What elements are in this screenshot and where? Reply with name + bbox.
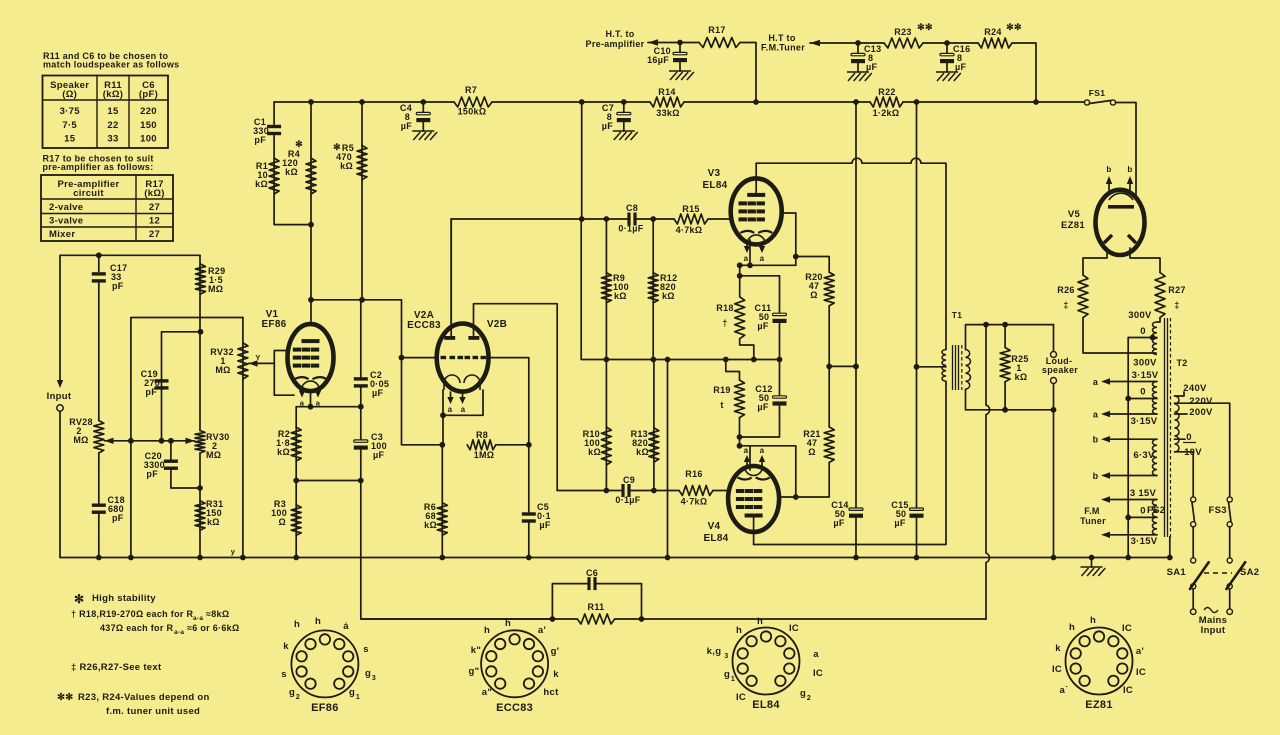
- node: CT column at HT rail: [914, 99, 920, 105]
- resistor R3: [291, 505, 301, 535]
- svg-text:3·15V: 3·15V: [1131, 536, 1158, 547]
- svg-text:pF: pF: [146, 469, 158, 479]
- svg-text:R14: R14: [658, 87, 675, 97]
- svg-text:EL84: EL84: [703, 533, 728, 544]
- resistor R4: [306, 158, 316, 194]
- node: C7 tap: [621, 99, 627, 105]
- svg-text:✻✻: ✻✻: [917, 22, 933, 32]
- wire: chassis ground stub: [1091, 558, 1093, 568]
- svg-text:a-a: a-a: [193, 615, 203, 622]
- wire: V3 anode to T1 primary top: [756, 162, 852, 164]
- svg-text:EF86: EF86: [261, 319, 286, 330]
- svg-text:b: b: [1106, 165, 1111, 174]
- wire: C7 ground stub: [623, 122, 625, 131]
- resistor R24: [978, 38, 1012, 48]
- svg-text:pF: pF: [112, 513, 124, 523]
- label: R29 1.5 M-ohm: [208, 266, 225, 294]
- svg-text:Tuner: Tuner: [1080, 516, 1106, 526]
- svg-text:ECC83: ECC83: [496, 702, 533, 714]
- svg-text:IC: IC: [813, 668, 823, 679]
- resistor R5: [357, 145, 367, 179]
- svg-text:F.M.Tuner: F.M.Tuner: [761, 43, 805, 53]
- svg-text:Pre-amplifier: Pre-amplifier: [586, 39, 645, 49]
- wire: V1 grid bracket: [274, 351, 294, 396]
- label: R7 150k: [458, 85, 487, 117]
- transformer T2 HT secondary: [1152, 322, 1157, 355]
- fuse FS3 element: [1229, 502, 1232, 522]
- wire: T1 secondary top: [966, 325, 1054, 350]
- svg-text:g: g: [349, 687, 355, 698]
- label: R13 820 k-ohm: [631, 429, 649, 457]
- socket: EF86 base labels: [281, 616, 376, 714]
- label: C11 50 uF: [755, 303, 772, 331]
- resistor R19: [735, 380, 745, 418]
- svg-text:EZ81: EZ81: [1061, 220, 1085, 231]
- wire: SA1-SA2 gang link: [1204, 572, 1232, 574]
- switch SA2 blade: [1227, 562, 1246, 589]
- label: R24 **: [984, 22, 1022, 37]
- resistor R7: [454, 97, 492, 107]
- wire: fm heater top tap: [1104, 499, 1157, 501]
- svg-text:h: h: [294, 619, 300, 630]
- svg-text:kΩ: kΩ: [636, 447, 649, 457]
- wire: V4 cathode lead: [749, 446, 751, 470]
- label: R20 47 ohm: [805, 272, 822, 300]
- svg-text:µF: µF: [602, 121, 613, 131]
- wire: C12 column: [779, 360, 781, 395]
- wire: R8 to V2B grid riser: [496, 444, 529, 446]
- resistor R16: [679, 486, 713, 496]
- socket: EL84 base: [733, 628, 800, 695]
- wire: C8 line: [451, 218, 627, 220]
- fuse FS3 top terminal: [1227, 497, 1232, 502]
- wire: V4 anode lead: [753, 516, 755, 545]
- wire: heater b bottom tap: [1104, 475, 1157, 477]
- fuse FS2 element: [1192, 502, 1195, 522]
- svg-text:R19: R19: [713, 385, 730, 395]
- wire: R24 to HT rail corner: [1012, 43, 1036, 102]
- svg-text:kΩ: kΩ: [588, 447, 601, 457]
- svg-text:6·3V: 6·3V: [1133, 450, 1155, 461]
- capacitor C7: [617, 112, 631, 122]
- svg-text:(kΩ): (kΩ): [144, 188, 164, 199]
- node: CT junction: [914, 364, 920, 370]
- label: V3 heater a a: [744, 254, 765, 263]
- wire: V2 cathode to R6: [442, 415, 444, 445]
- svg-text:T1: T1: [952, 310, 963, 320]
- node: ground rail junctions: [96, 555, 1173, 561]
- arrow: V2 heater a left: [447, 397, 453, 404]
- label: R5 470 k-ohm (high stability): [333, 142, 354, 171]
- svg-text:a˙: a˙: [1059, 685, 1068, 696]
- wire: feedback riser upper: [985, 325, 987, 405]
- svg-text:IC: IC: [1123, 685, 1133, 696]
- resistor R31: [195, 501, 205, 531]
- wire: feedback hop over ground rail: [986, 553, 989, 563]
- svg-text:F.M: F.M: [1084, 506, 1099, 516]
- svg-text:2-valve: 2-valve: [49, 202, 83, 213]
- potentiometer RV30: [195, 431, 205, 454]
- svg-text:k: k: [553, 669, 559, 680]
- resistor R22: [870, 97, 903, 107]
- resistor R20: [824, 272, 834, 306]
- note: high stability: [74, 592, 156, 606]
- wire: C17 branch lower: [98, 283, 100, 421]
- svg-text:R16: R16: [685, 469, 702, 479]
- label: FM Tuner: [1080, 506, 1106, 526]
- svg-text:‡ R26,R27-See text: ‡ R26,R27-See text: [71, 662, 162, 673]
- label: C17 33 pF: [110, 263, 127, 291]
- svg-text:R26: R26: [1057, 285, 1074, 295]
- svg-text:4·7kΩ: 4·7kΩ: [681, 497, 708, 507]
- svg-text:7·5: 7·5: [62, 120, 77, 131]
- svg-text:k,g: k,g: [707, 646, 722, 657]
- node: V3 cathode junctions: [737, 254, 799, 269]
- wire: HT rail to FS1: [1036, 101, 1085, 103]
- svg-text:k: k: [283, 641, 289, 652]
- resistor R25: [1000, 348, 1010, 382]
- wire: FS2 to SA1: [1192, 527, 1194, 558]
- svg-text:3: 3: [724, 653, 728, 660]
- svg-text:V3: V3: [708, 168, 721, 179]
- svg-text:a: a: [744, 446, 749, 455]
- ground: C13: [847, 72, 872, 81]
- arrow: HT to FM tuner: [810, 40, 820, 46]
- svg-text:gʺ: gʺ: [469, 666, 480, 677]
- svg-text:0: 0: [1186, 432, 1192, 443]
- wire: T1 centre tap: [917, 366, 947, 368]
- wire: V2B grid: [489, 358, 529, 512]
- wire: FS3 to SA2: [1229, 527, 1231, 558]
- wire: FM tuner feed line: [810, 42, 884, 44]
- switch SA2 top terminal: [1227, 558, 1232, 563]
- fuse FS3 bottom terminal: [1227, 522, 1232, 527]
- svg-text:circuit: circuit: [73, 188, 104, 199]
- label: V3 EL84: [702, 168, 727, 191]
- table: R17 selection text: [58, 179, 165, 240]
- socket: EZ81 base: [1066, 628, 1133, 695]
- svg-text:1: 1: [356, 694, 360, 701]
- arrow: RV30 wiper: [186, 438, 195, 444]
- svg-text:b: b: [1093, 471, 1099, 481]
- arrow: heater tap b top: [1101, 436, 1110, 442]
- wire: R15 to V3 grid: [708, 218, 731, 220]
- svg-text:µF: µF: [401, 121, 412, 131]
- resistor R1: [269, 158, 279, 194]
- resistor R9: [601, 273, 611, 303]
- svg-text:g: g: [800, 688, 806, 699]
- svg-text:0: 0: [1140, 387, 1146, 398]
- svg-text:h: h: [505, 618, 511, 629]
- switch SA1 top terminal: [1191, 558, 1196, 563]
- svg-text:MΩ: MΩ: [208, 284, 223, 294]
- wire: V3 heater stub left: [746, 244, 748, 248]
- svg-text:437Ω each for R: 437Ω each for R: [100, 623, 173, 633]
- transformer T2 core: [1165, 318, 1171, 537]
- wire: V1 heater stub left: [301, 390, 303, 393]
- wire: speaker top lead: [1053, 325, 1055, 351]
- svg-text:h: h: [736, 625, 742, 636]
- svg-text:R23, R24-Values depend on: R23, R24-Values depend on: [78, 692, 210, 703]
- svg-text:† R18,R19-270Ω each for R: † R18,R19-270Ω each for R: [71, 609, 193, 619]
- transformer T1 secondary winding: [966, 350, 971, 390]
- svg-text:3-valve: 3-valve: [49, 216, 83, 227]
- node: V4 bracket R21 junction: [793, 494, 799, 500]
- label: C10 16uF: [647, 46, 671, 65]
- node: wiper line junctions: [128, 438, 174, 444]
- socket: ECC83 base labels: [469, 618, 560, 714]
- wire: V3 anode lead: [755, 163, 757, 195]
- svg-text:12: 12: [149, 216, 160, 227]
- node: C11 line junction: [737, 273, 743, 279]
- label: R18 dagger: [716, 303, 733, 328]
- resistor R21: [824, 427, 834, 463]
- svg-text:300V: 300V: [1128, 310, 1152, 321]
- wire: V2 heater stub left: [450, 392, 452, 399]
- svg-text:3·75: 3·75: [60, 106, 81, 117]
- label: V4 heater a a: [744, 446, 765, 455]
- svg-text:kΩ: kΩ: [424, 520, 437, 530]
- arrow: V3 heater a right: [759, 246, 765, 253]
- svg-text:16µF: 16µF: [647, 55, 669, 65]
- svg-text:33kΩ: 33kΩ: [656, 108, 679, 118]
- node: mains terminal right: [1227, 609, 1233, 615]
- node: screen column at HT rail: [853, 99, 859, 105]
- label: R16 4.7k: [681, 469, 708, 507]
- svg-text:‡: ‡: [1063, 300, 1068, 310]
- svg-text:300V: 300V: [1133, 358, 1157, 369]
- wire: R23 to C16: [923, 42, 978, 44]
- wire: SA1 to mains: [1192, 589, 1194, 609]
- wire: SA2 to mains: [1229, 589, 1231, 609]
- svg-text:150: 150: [140, 120, 157, 131]
- label: R4 120 k-ohm (high stability): [282, 139, 303, 177]
- capacitor C14: [849, 508, 863, 518]
- wire: 200V tap: [1175, 413, 1188, 415]
- wire: V4 heater stub right: [761, 460, 763, 466]
- wire: R18 to mid rail: [740, 339, 754, 360]
- node: C1R1 to anode junction: [308, 222, 314, 228]
- svg-text:a-a: a-a: [174, 629, 184, 636]
- svg-text:T2: T2: [1176, 358, 1187, 368]
- svg-text:C9: C9: [623, 475, 635, 485]
- arrow: RV28 wiper: [105, 438, 114, 444]
- wire: R25 leads: [1004, 325, 1006, 348]
- svg-text:kΩ: kΩ: [662, 291, 675, 301]
- label: R3 100 ohm: [271, 499, 287, 527]
- label: Loud-speaker: [1042, 356, 1078, 375]
- ground: C7: [613, 131, 638, 140]
- label: R6 68 k-ohm: [424, 502, 437, 530]
- node: V1 anode junction: [308, 297, 314, 303]
- label: R2 1.8 k-ohm: [276, 429, 290, 457]
- wire: V5 anode to R27: [1130, 248, 1160, 273]
- resistor R18: [735, 297, 745, 339]
- resistor R12: [648, 273, 658, 303]
- ground: chassis: [1081, 567, 1106, 576]
- wire: V4 heater stub left: [746, 460, 748, 466]
- svg-text:f.m. tuner unit used: f.m. tuner unit used: [106, 706, 200, 717]
- label: mains sine: [1204, 608, 1218, 613]
- label: C2 0.05 uF: [370, 370, 389, 398]
- svg-text:R22: R22: [878, 87, 895, 97]
- capacitor C18: [92, 504, 106, 514]
- svg-text:hct: hct: [543, 687, 559, 698]
- ground: C16: [936, 72, 961, 81]
- svg-text:a': a': [1136, 646, 1144, 657]
- label: R1 10 k-ohm: [255, 161, 268, 189]
- svg-text:g: g: [289, 687, 295, 698]
- svg-text:0·1µF: 0·1µF: [618, 224, 643, 234]
- wire: V3 anode hop over screen column: [852, 158, 862, 163]
- svg-text:Input: Input: [1201, 625, 1226, 636]
- fuse FS1 right terminal: [1110, 100, 1115, 105]
- vacuum tube V4 EL84: [728, 466, 779, 532]
- svg-text:t: t: [720, 400, 723, 410]
- capacitor C13: [851, 53, 865, 63]
- wire: R20 top connection: [796, 257, 829, 273]
- wire: R5 column: [361, 102, 363, 300]
- svg-text:kΩ: kΩ: [277, 447, 290, 457]
- label: R21 47 ohm: [803, 429, 820, 457]
- svg-text:0: 0: [1140, 326, 1146, 337]
- wire: RV32 wiper to V1 grid: [249, 362, 275, 364]
- svg-text:ECC83: ECC83: [407, 320, 441, 331]
- resistor R29: [196, 264, 206, 294]
- note: R17 selection heading: [43, 154, 154, 173]
- svg-text:(Ω): (Ω): [62, 89, 77, 100]
- svg-text:15: 15: [107, 106, 119, 117]
- wire: ground rail: [60, 557, 1170, 559]
- wire: input ground lead: [59, 412, 61, 558]
- note: R11/C6 selection heading: [43, 51, 179, 70]
- wire: V2 heater stub right: [462, 392, 464, 399]
- svg-text:3: 3: [372, 675, 376, 682]
- wire: C8 line right: [637, 218, 674, 220]
- wire: CT column: [916, 102, 918, 507]
- svg-text:2: 2: [807, 695, 811, 702]
- label: C3 100 uF: [371, 432, 387, 460]
- wire: R17 to HT rail: [740, 43, 756, 103]
- node: loudspeaker terminal bottom: [1051, 378, 1057, 384]
- svg-text:kΩ: kΩ: [207, 517, 220, 527]
- wire: V4 g3 bracket: [740, 446, 796, 497]
- wire: input top line: [60, 255, 200, 382]
- label: RV28 2 M-ohm: [69, 417, 93, 445]
- wire: C12 line: [740, 412, 780, 437]
- wire: RV32 column: [242, 318, 244, 558]
- svg-text:b: b: [1127, 165, 1132, 174]
- label: V2 heater a a: [448, 405, 466, 414]
- transformer T2 primary: [1175, 396, 1180, 452]
- wire: R19 to V4 cathode node: [739, 418, 741, 446]
- svg-text:k: k: [1055, 643, 1061, 654]
- note: R18 R19 values: [71, 609, 239, 636]
- capacitor C10: [673, 52, 687, 62]
- capacitor C5: [522, 512, 536, 522]
- svg-text:R27: R27: [1168, 285, 1185, 295]
- label: RV30 2 M-ohm: [206, 432, 230, 460]
- svg-text:C8: C8: [626, 203, 638, 213]
- svg-text:V2B: V2B: [487, 319, 507, 330]
- svg-text:R18: R18: [716, 303, 733, 313]
- label: R27 dagger: [1168, 285, 1185, 310]
- svg-text:h: h: [1090, 615, 1096, 626]
- wire: V2A anode / C8 line: [450, 219, 452, 324]
- svg-text:22: 22: [107, 120, 118, 131]
- wire: R2 column: [295, 407, 297, 481]
- wire: V3 anode continue: [862, 162, 911, 164]
- node: riser at HT rail: [579, 99, 585, 105]
- svg-text:IC: IC: [789, 623, 799, 634]
- wire: C11 column: [779, 308, 781, 312]
- arrow: V5 heater b left: [1106, 176, 1112, 184]
- wire: C11 line: [740, 276, 780, 308]
- node: R5/C2 junction: [359, 297, 365, 303]
- wire: V4 anode to T1 primary bottom: [754, 381, 946, 544]
- svg-text:27: 27: [149, 229, 160, 240]
- label: C12 50 uF: [755, 384, 772, 412]
- wire: V1 cathode line: [296, 406, 361, 408]
- svg-text:µF: µF: [373, 450, 384, 460]
- resistor R14: [650, 97, 684, 107]
- svg-text:µF: µF: [757, 321, 768, 331]
- svg-text:IC: IC: [1122, 623, 1132, 634]
- node: C17 top junction: [96, 252, 102, 258]
- svg-text:Ω: Ω: [278, 517, 286, 527]
- ground: C4: [412, 131, 437, 140]
- svg-text:EF86: EF86: [311, 702, 339, 714]
- svg-text:220V: 220V: [1189, 396, 1213, 407]
- wire: fm heater 0 tap: [1128, 516, 1157, 518]
- wire: V2B anode route: [474, 304, 558, 491]
- wire: 0 mains tap underline: [1183, 442, 1196, 444]
- svg-text:H.T to: H.T to: [768, 33, 795, 43]
- svg-text:3·15V: 3·15V: [1132, 370, 1159, 381]
- node: C20 bottom junction: [197, 485, 203, 491]
- wire: HT rail: [274, 101, 454, 103]
- wire: C18 to ground: [98, 514, 100, 557]
- potentiometer RV28: [94, 421, 104, 454]
- svg-text:kΩ: kΩ: [1015, 372, 1028, 382]
- wire: preamp feed line: [648, 42, 699, 44]
- label: C14 50 uF: [831, 500, 848, 528]
- resistor R27: [1155, 273, 1165, 318]
- wire: R6 column: [441, 445, 443, 558]
- svg-text:µF: µF: [894, 518, 905, 528]
- arrow: heater tap b bottom: [1101, 472, 1110, 478]
- wire: C2/C3 column a: [360, 300, 362, 377]
- svg-text:y: y: [231, 547, 236, 556]
- node: heater a 0 tap: [1125, 396, 1131, 402]
- transformer T1 core: [953, 345, 962, 390]
- svg-text:g: g: [724, 669, 730, 680]
- wire: T2 HT 0 tap: [1128, 337, 1157, 339]
- svg-text:a: a: [1093, 410, 1099, 420]
- switch SA2 bottom terminal: [1227, 584, 1232, 589]
- arrow: V5 heater b right: [1127, 176, 1133, 184]
- node: C8 line junctions: [579, 216, 656, 222]
- svg-text:aʺ: aʺ: [482, 687, 492, 698]
- label: R12 820 k-ohm: [660, 273, 677, 301]
- svg-text:R17: R17: [708, 25, 725, 35]
- svg-text:3·15V: 3·15V: [1131, 416, 1158, 427]
- wire: C7 branch: [623, 102, 625, 112]
- wire: mid rail to R19: [726, 360, 740, 381]
- svg-text:µF: µF: [833, 518, 844, 528]
- wire: R2/R3 junction line: [296, 480, 361, 482]
- node: mid rail junctions: [604, 357, 783, 363]
